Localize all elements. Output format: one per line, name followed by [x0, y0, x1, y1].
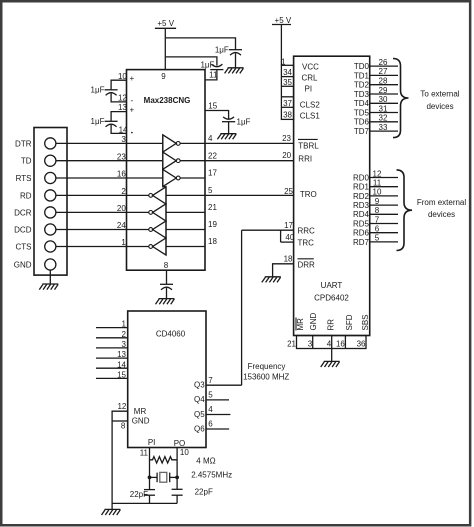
buffer R3 (left-pointing)	[153, 221, 166, 238]
wire DCR to U2 pin20	[56, 211, 149, 213]
wire DTR to U2 pin3	[56, 142, 163, 144]
capacitor C5 1uF plate	[222, 121, 235, 123]
svg-text:SBS: SBS	[361, 314, 370, 330]
svg-text:6: 6	[375, 225, 380, 234]
wire U2 pin13 to C4	[111, 112, 126, 122]
capacitor C4 curved plate	[106, 124, 117, 127]
wire TD7	[370, 130, 398, 132]
svg-text:36: 36	[357, 340, 366, 349]
wire +5V to U2 pin9	[164, 28, 166, 69]
svg-text:+: +	[130, 74, 135, 83]
wire U3 pin 3	[96, 347, 128, 349]
svg-text:Q4: Q4	[194, 395, 205, 404]
svg-text:14: 14	[117, 360, 126, 369]
wire clock net down	[241, 230, 243, 385]
capacitor C1 1uF plate	[105, 89, 118, 91]
bubble R4	[149, 245, 153, 249]
svg-text:TBRL: TBRL	[298, 141, 319, 150]
wire TD0	[370, 65, 398, 67]
buffer R4 (left-pointing)	[153, 238, 166, 255]
svg-text:TD0: TD0	[354, 62, 370, 71]
wire RD to U2 pin2	[56, 194, 149, 196]
wire TD3	[370, 93, 398, 95]
connector pin circle RD	[45, 190, 56, 201]
ground below UART	[321, 361, 340, 367]
wire TD4	[370, 102, 398, 104]
svg-text:4: 4	[208, 134, 213, 143]
svg-text:20: 20	[117, 204, 126, 213]
+5V rail bar	[155, 27, 176, 29]
svg-text:Q5: Q5	[194, 410, 205, 419]
svg-text:13: 13	[117, 350, 126, 359]
svg-text:DCR: DCR	[14, 208, 32, 217]
wire TD6	[370, 121, 398, 123]
svg-text:devices: devices	[426, 102, 453, 111]
box divider pin3	[312, 336, 314, 349]
svg-text:PI: PI	[305, 84, 313, 93]
svg-text:VCC: VCC	[302, 62, 319, 71]
brace TD group	[393, 59, 409, 138]
ground below C5	[217, 134, 236, 140]
svg-text:TD2: TD2	[354, 81, 370, 90]
svg-text:RD4: RD4	[353, 210, 370, 219]
box divider pin16	[344, 336, 346, 349]
wire +5V branch to C2	[165, 57, 217, 66]
wire U3 pin 14	[96, 367, 128, 369]
wire U2 row 4 output	[180, 142, 294, 144]
capacitor C4 1uF plate	[105, 120, 118, 122]
svg-text:5: 5	[208, 186, 213, 195]
svg-text:RRC: RRC	[298, 227, 316, 236]
svg-text:PO: PO	[174, 439, 186, 448]
svg-text:2: 2	[122, 330, 127, 339]
svg-text:1: 1	[121, 238, 126, 247]
wire to crystal left plate	[150, 476, 158, 478]
wire DRR to ground	[273, 264, 294, 277]
pin 11 notch on U2	[205, 70, 217, 80]
capacitor C6 curved plate	[161, 287, 172, 290]
svg-text:31: 31	[379, 104, 388, 113]
wire U2 row 21 output	[166, 211, 205, 213]
connector pin circle RTS	[45, 172, 56, 183]
wire RTS to U2 pin16	[56, 177, 163, 179]
svg-text:RRI: RRI	[298, 155, 312, 164]
capacitor C1 curved plate	[106, 93, 117, 96]
svg-text:TRO: TRO	[300, 190, 317, 199]
svg-text:RD2: RD2	[353, 192, 370, 201]
polarity dot C4	[131, 132, 133, 134]
capacitor C7 22pF top plate	[144, 489, 155, 491]
svg-text:-: -	[131, 96, 134, 105]
svg-text:17: 17	[208, 169, 217, 178]
svg-text:CLS2: CLS2	[300, 100, 321, 109]
svg-text:TD6: TD6	[354, 118, 370, 127]
connector pin circle DCR	[45, 207, 56, 218]
buffer T1 (right-pointing)	[163, 135, 176, 152]
wire U3 Q5 stub	[206, 414, 230, 416]
wire U3 pin 1	[96, 327, 128, 329]
wire RD4	[370, 213, 398, 215]
svg-text:16: 16	[117, 170, 126, 179]
svg-text:25: 25	[284, 187, 293, 196]
wire C8 to rail	[176, 495, 178, 503]
wire U3 Q6 stub	[206, 428, 229, 430]
svg-text:TD: TD	[21, 157, 32, 166]
svg-text:29: 29	[379, 86, 388, 95]
bubble R2	[149, 211, 153, 215]
svg-text:34: 34	[283, 68, 292, 77]
svg-text:30: 30	[379, 95, 388, 104]
svg-text:devices: devices	[428, 210, 455, 219]
svg-text:8: 8	[375, 206, 380, 215]
svg-text:23: 23	[282, 134, 291, 143]
capacitor C8 22pF bottom plate	[172, 494, 183, 496]
svg-text:27: 27	[379, 67, 388, 76]
svg-text:TD3: TD3	[354, 90, 370, 99]
svg-text:DRR: DRR	[298, 261, 316, 270]
wire DCD to U2 pin24	[56, 229, 149, 231]
svg-text:7: 7	[208, 376, 213, 385]
wire C5 to ground	[228, 122, 230, 134]
capacitor C2 curved plate	[211, 64, 222, 67]
capacitor C8 22pF top plate	[172, 488, 183, 490]
svg-text:26: 26	[379, 58, 388, 67]
svg-text:15: 15	[117, 371, 126, 380]
svg-text:MR: MR	[134, 407, 147, 416]
bottom pin box row	[297, 336, 367, 349]
svg-text:GND: GND	[14, 260, 32, 269]
wire buffer chain vertical (drivers)	[162, 135, 164, 187]
wire U2 row 5 output	[166, 194, 294, 196]
svg-text:DTR: DTR	[15, 139, 32, 148]
svg-text:3: 3	[122, 340, 127, 349]
wire RD5	[370, 223, 398, 225]
ground below DRR	[262, 277, 281, 283]
svg-text:18: 18	[208, 237, 217, 246]
svg-text:11: 11	[373, 179, 382, 188]
ground bottom left	[102, 509, 121, 515]
svg-text:CTS: CTS	[16, 242, 32, 251]
wire U3 pin 2	[96, 337, 128, 339]
wire C1 to U2 pin12	[111, 93, 126, 102]
svg-text:24: 24	[117, 221, 126, 230]
wire C6 to ground	[166, 288, 168, 299]
wire buffer chain vertical (receivers)	[165, 187, 167, 255]
connector pin circle GND	[45, 259, 56, 270]
bubble R1	[149, 194, 153, 198]
svg-text:10: 10	[118, 72, 127, 81]
svg-text:1μF: 1μF	[91, 85, 105, 94]
svg-text:3: 3	[121, 135, 126, 144]
buffer T3 (right-pointing)	[163, 169, 176, 186]
svg-text:32: 32	[379, 114, 388, 123]
wire RD7	[370, 241, 398, 243]
connector pin circle CTS	[45, 241, 56, 252]
svg-text:2: 2	[121, 187, 126, 196]
svg-text:12: 12	[118, 93, 127, 102]
+5V rail bar (UART)	[272, 24, 291, 26]
MR overline	[295, 318, 297, 331]
svg-text:CRL: CRL	[302, 74, 319, 83]
capacitor C6 plate	[160, 283, 173, 285]
wire U3 pin 12	[112, 411, 128, 509]
svg-text:14: 14	[119, 125, 128, 134]
box divider pin4	[331, 336, 333, 349]
capacitor C3 1uF plate	[229, 49, 242, 51]
wire TRC up to RRC	[280, 230, 282, 242]
svg-text:4: 4	[208, 405, 213, 414]
svg-text:18: 18	[284, 255, 293, 264]
wire UART pin4 to ground	[331, 349, 333, 362]
wire U2 pin10 to C1	[111, 80, 126, 90]
wire from crystal right plate	[170, 476, 177, 478]
UART U1 CPD6402 body	[294, 56, 370, 335]
svg-text:TD4: TD4	[354, 99, 370, 108]
wire C4 to U2 pin14	[111, 125, 126, 134]
svg-text:8: 8	[164, 261, 169, 270]
svg-text:12: 12	[117, 402, 126, 411]
svg-text:RD5: RD5	[353, 219, 370, 228]
wire U2 pin8 to C6	[166, 270, 168, 284]
svg-text:38: 38	[283, 111, 292, 120]
wire RRC left	[242, 229, 294, 231]
wire U2 pin15 to C5	[205, 111, 229, 119]
svg-text:RD0: RD0	[353, 173, 370, 182]
wire U3 pin 13	[96, 357, 128, 359]
svg-text:Frequency: Frequency	[248, 362, 286, 371]
svg-text:22pF: 22pF	[130, 490, 148, 499]
bubble R3	[149, 228, 153, 232]
svg-text:40: 40	[285, 233, 294, 242]
svg-text:21: 21	[208, 203, 217, 212]
box divider 37 top	[281, 96, 293, 98]
svg-text:RTS: RTS	[16, 174, 32, 183]
svg-text:13: 13	[118, 103, 127, 112]
crystal X1 body	[160, 472, 167, 482]
connector pin circle DCD	[45, 224, 56, 235]
svg-text:10: 10	[373, 188, 382, 197]
wire RD6	[370, 232, 398, 234]
svg-text:7: 7	[375, 215, 380, 224]
box divider 35 bottom	[281, 85, 293, 87]
wire RD3	[370, 204, 398, 206]
svg-text:MR: MR	[296, 318, 305, 331]
connector pin circle TD	[45, 155, 56, 166]
svg-text:TRC: TRC	[298, 239, 315, 248]
svg-text:RD1: RD1	[353, 183, 370, 192]
wire clock net to U3 Q3	[206, 384, 242, 386]
svg-text:6: 6	[208, 420, 213, 429]
svg-text:153600 MHZ: 153600 MHZ	[243, 373, 289, 382]
svg-text:CLS1: CLS1	[300, 112, 321, 121]
svg-text:1μF: 1μF	[200, 61, 214, 70]
svg-text:3: 3	[308, 340, 313, 349]
svg-text:UART: UART	[321, 281, 343, 290]
svg-text:RD: RD	[20, 191, 32, 200]
svg-text:19: 19	[208, 220, 217, 229]
wire C7 to rail	[149, 495, 151, 503]
svg-text:SFD: SFD	[345, 314, 354, 330]
crystal X1 right plate	[169, 473, 171, 483]
svg-text:4: 4	[327, 340, 332, 349]
svg-text:TD7: TD7	[354, 127, 370, 136]
bubble T2	[176, 159, 180, 163]
wire TD5	[370, 112, 398, 114]
svg-text:5: 5	[375, 234, 380, 243]
wire CTS to U2 pin1	[56, 246, 149, 248]
wire +5V to UART VCC/config pins	[280, 25, 282, 66]
bottom ground rail	[112, 502, 177, 504]
wire U2 row 19 output	[166, 229, 205, 231]
svg-text:20: 20	[282, 151, 291, 160]
wire buffer chain jog	[163, 186, 166, 188]
wire U3 Q4 stub	[206, 399, 229, 401]
svg-text:2.4575MHz: 2.4575MHz	[191, 471, 232, 480]
resistor R1 4 Mohm	[150, 457, 178, 463]
wire PO leg	[176, 448, 178, 490]
capacitor C2 1uF plate	[210, 69, 223, 71]
config pin box column	[281, 65, 293, 119]
svg-text:21: 21	[287, 340, 296, 349]
wire TD to U2 pin23	[56, 160, 163, 162]
svg-text:Q3: Q3	[194, 381, 205, 390]
wire GND pin to ground	[49, 270, 51, 284]
wire PI leg	[149, 448, 151, 490]
svg-text:GND: GND	[132, 417, 150, 426]
svg-text:1μF: 1μF	[237, 117, 251, 126]
wire RD0	[370, 177, 398, 179]
svg-text:11: 11	[209, 70, 218, 79]
svg-text:1: 1	[122, 320, 127, 329]
svg-text:23: 23	[117, 152, 126, 161]
svg-text:From external: From external	[417, 198, 467, 207]
svg-text:RD6: RD6	[353, 229, 370, 238]
svg-text:GND: GND	[309, 313, 318, 331]
svg-text:4 MΩ: 4 MΩ	[196, 456, 215, 465]
svg-text:10: 10	[180, 448, 189, 457]
svg-text:11: 11	[140, 448, 149, 457]
op-amp chip U2 Max238CNG body	[127, 70, 206, 271]
svg-text:9: 9	[375, 197, 380, 206]
svg-text:22pF: 22pF	[195, 487, 213, 496]
capacitor C3 curved plate	[230, 53, 241, 56]
wire TD1	[370, 74, 398, 76]
svg-text:RR: RR	[327, 319, 336, 331]
svg-text:RD3: RD3	[353, 201, 370, 210]
svg-text:CD4060: CD4060	[156, 329, 186, 338]
junction dot left	[148, 476, 152, 480]
bubble T1	[176, 142, 180, 146]
wire TD2	[370, 84, 398, 86]
wire U2 row 22 output	[180, 160, 294, 162]
wire +5V branch to C3	[165, 38, 235, 50]
svg-text:CPD6402: CPD6402	[314, 294, 349, 303]
svg-text:To external: To external	[420, 90, 459, 99]
svg-text:RD7: RD7	[353, 238, 370, 247]
svg-text:22: 22	[208, 151, 217, 160]
svg-text:PI: PI	[148, 438, 156, 447]
brace RD group	[397, 170, 413, 251]
svg-text:1μF: 1μF	[91, 117, 105, 126]
svg-text:TD1: TD1	[354, 71, 370, 80]
capacitor C7 22pF bottom plate	[144, 494, 155, 496]
wire U2 row 18 output	[166, 246, 205, 248]
ground below connector	[39, 284, 58, 290]
junction dot right	[175, 476, 179, 480]
svg-text:8: 8	[121, 422, 126, 431]
svg-text:33: 33	[379, 123, 388, 132]
box divider 34/35	[281, 76, 293, 78]
oscillator chip U3 CD4060 body	[128, 311, 206, 448]
svg-text:28: 28	[379, 77, 388, 86]
svg-text:37: 37	[283, 99, 292, 108]
svg-text:TD5: TD5	[354, 108, 370, 117]
box divider 37/38	[281, 106, 293, 108]
svg-text:17: 17	[284, 221, 293, 230]
svg-text:35: 35	[283, 78, 292, 87]
svg-text:5: 5	[208, 391, 213, 400]
wire RD1	[370, 186, 398, 188]
wire C3 to ground	[235, 53, 237, 68]
wire U2 row 17 output	[180, 177, 205, 179]
svg-text:DCD: DCD	[14, 225, 32, 234]
svg-text:15: 15	[208, 102, 217, 111]
svg-text:12: 12	[373, 169, 382, 178]
connector J1 body	[34, 128, 67, 276]
svg-text:Q6: Q6	[194, 424, 205, 433]
svg-text:+5 V: +5 V	[157, 19, 174, 28]
svg-text:1μF: 1μF	[215, 46, 229, 55]
capacitor C5 curved plate	[223, 117, 234, 119]
wire TRC left	[281, 241, 294, 243]
svg-text:16: 16	[336, 340, 345, 349]
ground below C6	[156, 299, 175, 305]
ground below C3	[225, 68, 244, 74]
DRR overline	[298, 258, 314, 260]
wire RD2	[370, 195, 398, 197]
svg-text:Max238CNG: Max238CNG	[144, 96, 191, 105]
buffer R1 (left-pointing)	[153, 187, 166, 204]
wire U3 pin 8	[112, 420, 128, 422]
crystal X1 left plate	[156, 473, 158, 483]
connector pin circle DTR	[45, 138, 56, 149]
TBRL overline	[298, 138, 318, 140]
buffer T2 (right-pointing)	[163, 152, 176, 169]
buffer R2 (left-pointing)	[153, 204, 166, 221]
svg-text:9: 9	[161, 72, 166, 81]
wire U3 pin 15	[96, 377, 128, 379]
bubble T3	[176, 176, 180, 180]
svg-text:+: +	[130, 106, 135, 115]
